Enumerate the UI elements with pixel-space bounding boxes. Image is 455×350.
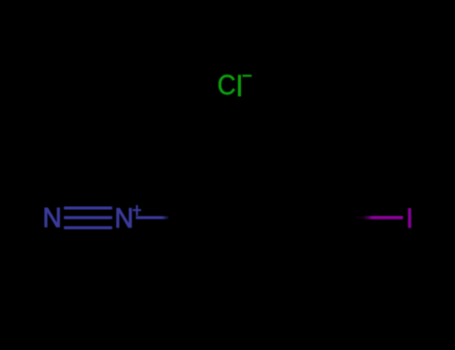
plus charge on N2 bbox=[133, 205, 141, 216]
bond C4-I (black carbon half invisible, purple half) bbox=[350, 216, 403, 219]
atom I (iodine) bbox=[408, 208, 411, 228]
bond N2-C1 (blue half, fades into black carbon half) bbox=[136, 216, 170, 219]
chloride counterion Cl- : C bbox=[219, 75, 235, 95]
atom N2 (diazonium inner nitrogen, charged) bbox=[117, 208, 132, 227]
atom N1 (diazonium terminal nitrogen) bbox=[45, 208, 60, 227]
l of Cl bbox=[238, 75, 241, 97]
benzene ring (carbon skeleton, black on black background) bbox=[201, 158, 339, 278]
triple bond N#N bbox=[64, 208, 112, 228]
minus charge on Cl bbox=[242, 75, 251, 77]
